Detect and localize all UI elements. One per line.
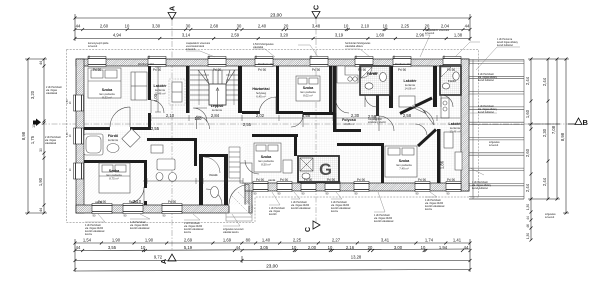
svg-text:2,68: 2,68 [210,24,219,29]
windows: bottom-left wall [92,204,182,214]
bottom-left wall [76,205,252,213]
door szoba1 to bath (wide opening) [110,107,130,130]
svg-text:10: 10 [421,245,426,250]
svg-text:2,84: 2,84 [211,113,220,118]
svg-text:8,98: 8,98 [560,132,565,141]
svg-text:2,10: 2,10 [166,113,175,118]
wall stub corridor [376,95,379,116]
interior vertical dim line stair [155,67,161,112]
svg-text:1,60: 1,60 [376,33,385,38]
terrace joists right side [469,60,524,200]
svg-text:Prl 90: Prl 90 [304,178,313,182]
bottom-right wall [245,183,469,191]
svg-text:vakolat: vakolat [95,201,103,204]
svg-text:9,72: 9,72 [154,255,163,260]
step wall [245,183,252,213]
svg-text:20: 20 [368,245,373,250]
haztartasi right wall [276,66,279,114]
top dimension chain lines [75,14,470,41]
leader polylines above building [85,35,520,226]
svg-text:tervezett: tervezett [88,45,98,48]
haztartasi bottom wall [242,111,260,114]
svg-text:44: 44 [76,245,81,250]
svg-text:1,30: 1,30 [526,204,530,210]
svg-text:kezelt felülettel: kezelt felülettel [478,79,494,82]
C section line [315,18,317,225]
sofa [131,72,147,100]
bed szoba top-left [88,68,121,98]
svg-text:1,38: 1,38 [454,33,463,38]
wc room fixtures [197,116,221,198]
svg-text:Prl 90: Prl 90 [256,178,265,182]
svg-text:7,49 m²: 7,49 m² [399,167,409,171]
wall szoba1|lakoter [148,66,151,100]
mid szoba right wall [329,66,333,115]
doors (arcs) [130,95,453,205]
diagonal walls [400,98,436,146]
svg-text:vakolat: vakolat [268,179,276,182]
svg-text:2,96: 2,96 [416,33,425,38]
svg-text:vakolással: vakolással [45,142,57,145]
washbasin bath [107,144,119,153]
bathtub [84,134,103,155]
left margin annotation blocks [45,86,62,145]
svg-text:23,00: 23,00 [270,13,282,18]
svg-text:14,08 m²: 14,08 m² [404,87,415,91]
svg-text:1,86: 1,86 [440,160,445,169]
svg-text:1,40: 1,40 [262,237,271,242]
windows: left wall [74,95,84,179]
svg-text:készre: készre [425,208,433,211]
annotation text blocks [85,29,556,236]
svg-text:kezelt felülettel: kezelt felülettel [472,187,488,190]
svg-text:készült vakolással: készült vakolással [130,227,150,230]
svg-text:C: C [314,5,321,10]
svg-text:3,19: 3,19 [335,33,344,38]
svg-text:13,46 m²: 13,46 m² [449,130,460,134]
svg-text:2,59: 2,59 [231,33,240,38]
svg-text:G: G [319,161,332,179]
svg-text:B: B [583,118,589,127]
svg-text:2,10: 2,10 [361,24,370,29]
bed szoba2 [99,163,130,193]
A section line [171,20,173,250]
svg-text:C: C [305,227,312,232]
wall above bathroom [84,127,151,130]
small interior dims [133,93,445,204]
stair left wall [186,66,190,113]
svg-text:Porotherm 44 K: Porotherm 44 K [395,63,412,66]
svg-text:4,94: 4,94 [113,33,122,38]
svg-text:30: 30 [186,24,191,29]
fürdő unit2 [440,66,461,95]
windows: bottom-right wall [253,182,461,192]
svg-text:Prl 90: Prl 90 [213,68,222,72]
svg-text:8,50 m²: 8,50 m² [261,163,271,167]
svg-text:Prl 90: Prl 90 [327,178,336,182]
wall szoba2|corridor [144,160,147,188]
washing machine diag [122,129,140,147]
svg-text:10,26 m²: 10,26 m² [343,122,354,126]
svg-text:1,90: 1,90 [38,177,43,186]
svg-text:2,58: 2,58 [403,113,412,118]
svg-text:Fürdő: Fürdő [448,79,456,83]
svg-text:2,25: 2,25 [293,237,302,242]
svg-text:4,00: 4,00 [153,93,158,102]
terrace floor [469,59,524,199]
kitchen unit2 [441,98,449,118]
svg-text:30: 30 [237,24,242,29]
section marker B right [568,118,589,127]
entrance door opening [226,185,256,222]
section marker C bottom [305,221,320,232]
svg-text:készre: készre [331,210,339,213]
svg-text:2,58: 2,58 [368,114,377,119]
svg-text:2,55: 2,55 [243,122,252,127]
svg-text:A: A [170,6,177,11]
svg-text:46: 46 [526,224,530,228]
corridor dimension line [151,115,460,121]
floor areas [84,59,524,205]
svg-text:44: 44 [39,208,43,212]
svg-text:tervezett: tervezett [186,48,196,51]
svg-text:44: 44 [464,245,469,250]
svg-text:Prl 90: Prl 90 [357,178,366,182]
svg-text:7,08: 7,08 [551,125,556,134]
unit separation wall [389,66,393,108]
tiny 90/8 labels at windows [87,55,450,217]
section marker C top [312,5,321,19]
right dimension chains [528,59,569,240]
furniture [84,66,449,193]
svg-text:2,30: 2,30 [542,128,547,137]
room labels [99,72,462,181]
svg-text:10: 10 [292,245,297,250]
wall below bathroom [84,160,147,163]
svg-text:2,69: 2,69 [184,237,193,242]
svg-text:2,60: 2,60 [100,24,109,29]
outer walls hatched [76,59,469,213]
svg-text:2,27: 2,27 [332,237,341,242]
svg-text:2,00: 2,00 [308,245,317,250]
corridor bottom wall right [336,129,361,132]
section marker A top [168,6,177,20]
mid szoba left wall [279,111,303,114]
bottom szoba right wall [437,129,441,183]
left wall [76,59,84,213]
svg-text:tervezett: tervezett [545,216,555,219]
svg-text:Prl 90: Prl 90 [168,200,177,204]
section marker A bottom [161,254,176,264]
svg-text:Porotherm 44 K: Porotherm 44 K [258,63,275,66]
svg-text:Prl 90: Prl 90 [398,68,407,72]
window W1 top [88,57,106,67]
svg-text:44: 44 [39,61,43,65]
svg-text:vakolás készre: vakolás készre [223,231,239,234]
svg-text:2,44: 2,44 [542,77,547,86]
svg-text:Prl 90: Prl 90 [447,68,456,72]
svg-text:8,75 m²: 8,75 m² [109,177,119,181]
svg-text:szabvány szerint: szabvány szerint [368,121,386,124]
svg-text:1,30: 1,30 [67,99,69,104]
unit1 left wall [333,66,337,132]
svg-text:13,28: 13,28 [351,255,362,260]
svg-text:44: 44 [76,24,81,29]
svg-text:Prl 90: Prl 90 [447,178,456,182]
svg-text:5,19: 5,19 [184,245,193,250]
floor left block [84,66,461,183]
utility room A furniture [151,145,177,182]
utility block walls center-left [147,138,196,141]
svg-text:2,10: 2,10 [133,199,142,204]
svg-text:3,05: 3,05 [260,245,269,250]
svg-text:Fürdő: Fürdő [210,173,218,177]
svg-text:vakolással: vakolással [46,92,58,95]
svg-text:2,02: 2,02 [256,113,265,118]
svg-text:2,44: 2,44 [525,76,530,85]
szoba mid-bottom top wall [252,134,298,137]
diagonal door arc [423,110,434,125]
svg-text:10: 10 [383,24,388,29]
wardrobe center [240,163,252,183]
svg-text:20: 20 [425,24,430,29]
interior dim line center [143,178,243,184]
svg-text:2,60: 2,60 [525,148,530,157]
svg-text:6,45 m²: 6,45 m² [256,95,266,99]
svg-text:tervezett: tervezett [489,144,499,147]
svg-text:Prl 90: Prl 90 [153,68,162,72]
svg-text:2,44: 2,44 [525,183,530,192]
kitchen island lakoter1 [172,82,182,102]
svg-text:100: 100 [195,116,203,121]
svg-text:Prl 90: Prl 90 [312,68,321,72]
svg-text:készre: készre [184,231,192,234]
B section line [41,123,568,125]
svg-text:1,30: 1,30 [67,132,69,137]
svg-text:1,30: 1,30 [526,233,530,239]
svg-text:Prl 90: Prl 90 [93,68,102,72]
stair right wall [238,66,242,113]
svg-text:1,90: 1,90 [112,237,121,242]
top wall [76,59,469,66]
bathroom tech room center [298,156,339,182]
wall spec texts along walls [67,63,412,204]
svg-text:44: 44 [465,24,470,29]
bottom szoba left wall [381,143,384,183]
svg-text:30: 30 [39,148,43,152]
wardrobe mid-bottom szoba [283,160,292,173]
svg-text:23,00: 23,00 [266,264,278,269]
pantry shaft [229,147,240,178]
svg-text:3,20: 3,20 [280,33,289,38]
watermark [208,103,328,205]
svg-text:Prl 90: Prl 90 [418,178,427,182]
svg-text:A: A [161,259,168,264]
svg-text:20: 20 [284,24,289,29]
svg-text:10: 10 [328,245,333,250]
svg-text:1,41: 1,41 [453,237,462,242]
bottom dimension lines [75,239,470,272]
svg-text:kerámia: kerámia [108,138,118,142]
svg-text:2,16: 2,16 [346,245,355,250]
svg-text:1,60: 1,60 [525,109,530,118]
svg-text:44: 44 [236,245,241,250]
svg-text:1,90: 1,90 [145,237,154,242]
svg-text:tervezett: tervezett [425,32,435,35]
svg-text:10: 10 [141,245,146,250]
svg-text:vakolattal: vakolattal [253,46,264,49]
svg-text:2,04: 2,04 [441,24,450,29]
svg-text:készült: készült [269,213,277,216]
svg-text:3,20: 3,20 [30,90,35,99]
svg-text:készült vakolással: készült vakolással [374,220,394,223]
svg-text:2,44: 2,44 [542,177,547,186]
svg-text:10: 10 [344,24,349,29]
svg-text:1,69: 1,69 [223,237,232,242]
kitchen unit1 [337,66,358,83]
staircase [190,70,238,108]
svg-text:Fürdő: Fürdő [367,72,378,76]
svg-text:3,48: 3,48 [312,24,321,29]
svg-text:3,41: 3,41 [381,237,390,242]
svg-text:8,58: 8,58 [302,113,311,118]
section marker B left [33,119,41,127]
svg-text:44: 44 [526,216,530,220]
svg-text:készült vakolással: készült vakolással [291,207,311,210]
svg-text:Porotherm 44 K: Porotherm 44 K [138,63,155,66]
svg-text:Prl 90: Prl 90 [358,68,367,72]
svg-text:kezelt felülettel: kezelt felülettel [497,44,513,47]
svg-text:2,55: 2,55 [151,126,160,131]
svg-text:vakolattal ellátva: vakolattal ellátva [345,45,363,48]
svg-text:3,55: 3,55 [108,245,117,250]
Prl 90 labels [93,68,456,204]
svg-text:80: 80 [246,237,251,242]
windows: top wall [88,57,461,67]
svg-text:1,54: 1,54 [83,237,92,242]
svg-text:2,25: 2,25 [401,24,410,29]
left dimension chains [25,59,47,213]
svg-text:3,30: 3,30 [152,24,161,29]
interior partition walls [84,66,441,205]
svg-text:1,75: 1,75 [30,135,35,144]
svg-text:8,98: 8,98 [21,131,26,140]
right wall [461,59,469,191]
fürdő unit1 [360,66,390,95]
svg-text:kerámia: kerámia [212,108,222,112]
svg-text:1,74: 1,74 [425,237,434,242]
bed mid szoba top [296,76,320,101]
svg-text:10: 10 [32,124,36,128]
svg-text:10: 10 [125,24,130,29]
svg-text:8,02 m²: 8,02 m² [303,94,313,98]
svg-text:3,00: 3,00 [394,245,403,250]
roof overhang dashed outline [67,50,479,223]
svg-text:3,14: 3,14 [182,33,191,38]
bed szoba bottom-right [385,146,417,177]
kitchen island dashed halo [169,79,185,105]
furniture right units [399,96,462,170]
svg-text:Prl 90: Prl 90 [258,68,267,72]
svg-text:8,32 m²: 8,32 m² [102,96,112,100]
svg-text:kezelt felülettel: kezelt felülettel [478,111,494,114]
svg-text:2,40: 2,40 [258,24,267,29]
svg-text:készre: készre [85,233,93,236]
svg-text:1,94: 1,94 [439,245,448,250]
svg-text:Prl 90: Prl 90 [280,178,289,182]
bed szoba mid-bottom [254,143,281,172]
